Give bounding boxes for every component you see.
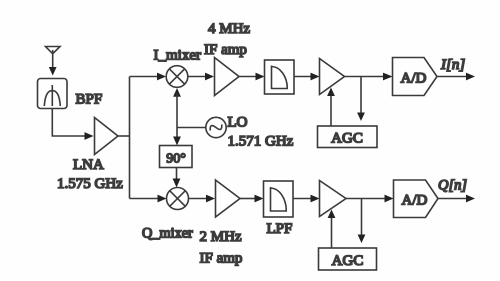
AGC block I xyxy=(318,126,378,148)
wire junction down to AGC box Q xyxy=(358,199,366,244)
wire I_mixer to IF amp I xyxy=(188,73,214,81)
AGC block Q xyxy=(319,248,377,270)
wire IF amp to LPF Q xyxy=(240,195,264,203)
bandpass filter BPF xyxy=(38,79,68,109)
wire BPF to LNA xyxy=(52,109,93,140)
wire A/D output I[n] xyxy=(437,73,475,81)
antenna xyxy=(46,47,61,71)
oscillator LO xyxy=(206,117,226,137)
amplifier LNA xyxy=(95,118,119,155)
wire Q_mixer to IF amp Q xyxy=(189,195,216,203)
amplifier AGC controlled Q xyxy=(320,181,347,217)
wire AGC box to amp control Q xyxy=(328,210,336,249)
wire junction down to AGC box I xyxy=(357,77,365,122)
wire AGC box to amp control I xyxy=(327,88,335,127)
wire 90 to Q_mixer xyxy=(173,168,181,188)
amplifier IF amp Q xyxy=(216,180,241,217)
svg-text:BPF: BPF xyxy=(76,92,103,108)
wire branch vertical xyxy=(129,77,131,199)
wire LPF to AGC amp I xyxy=(294,73,320,81)
svg-text:I[n]: I[n] xyxy=(440,57,465,73)
wire branch to I_mixer xyxy=(130,73,167,81)
mixer I_mixer xyxy=(166,66,188,88)
lowpass filter LPF I xyxy=(265,60,295,94)
wire LPF to AGC amp Q xyxy=(293,195,320,203)
wire IF amp to LPF I xyxy=(239,73,265,81)
lowpass filter LPF Q xyxy=(264,181,294,217)
svg-text:1.575 GHz: 1.575 GHz xyxy=(57,176,123,192)
svg-text:90°: 90° xyxy=(166,152,186,167)
mixer Q_mixer xyxy=(167,188,189,210)
svg-text:2 MHz: 2 MHz xyxy=(200,229,242,245)
phase shifter 90 xyxy=(160,146,193,168)
A/D converter I xyxy=(393,58,438,96)
svg-text:AGC: AGC xyxy=(331,131,363,147)
wire LNA to branch node xyxy=(118,135,130,137)
A/D converter Q xyxy=(394,180,439,218)
svg-text:4 MHz: 4 MHz xyxy=(208,21,250,37)
wire antenna to BPF with arrow xyxy=(49,67,57,76)
wire branch to Q_mixer xyxy=(130,195,167,203)
svg-text:IF amp: IF amp xyxy=(204,42,247,58)
svg-text:IF amp: IF amp xyxy=(200,251,243,267)
wire AGC amp to A/D Q xyxy=(346,195,394,203)
svg-text:A/D: A/D xyxy=(401,71,427,87)
svg-text:Q[n]: Q[n] xyxy=(438,178,467,194)
wire AGC amp to A/D I xyxy=(345,73,393,81)
svg-text:I_mixer: I_mixer xyxy=(154,48,201,64)
wire A/D output Q[n] xyxy=(438,195,475,203)
amplifier AGC controlled I xyxy=(320,59,345,95)
svg-text:1.571 GHz: 1.571 GHz xyxy=(228,134,294,150)
svg-text:LPF: LPF xyxy=(267,221,293,237)
svg-text:Q_mixer: Q_mixer xyxy=(142,226,193,242)
svg-text:A/D: A/D xyxy=(402,193,428,209)
svg-text:LNA: LNA xyxy=(73,157,104,173)
svg-text:AGC: AGC xyxy=(332,253,364,269)
svg-text:LO: LO xyxy=(228,115,248,131)
amplifier IF amp I xyxy=(215,58,240,96)
wire I_mixer down to 90 with LO tee xyxy=(173,88,206,146)
